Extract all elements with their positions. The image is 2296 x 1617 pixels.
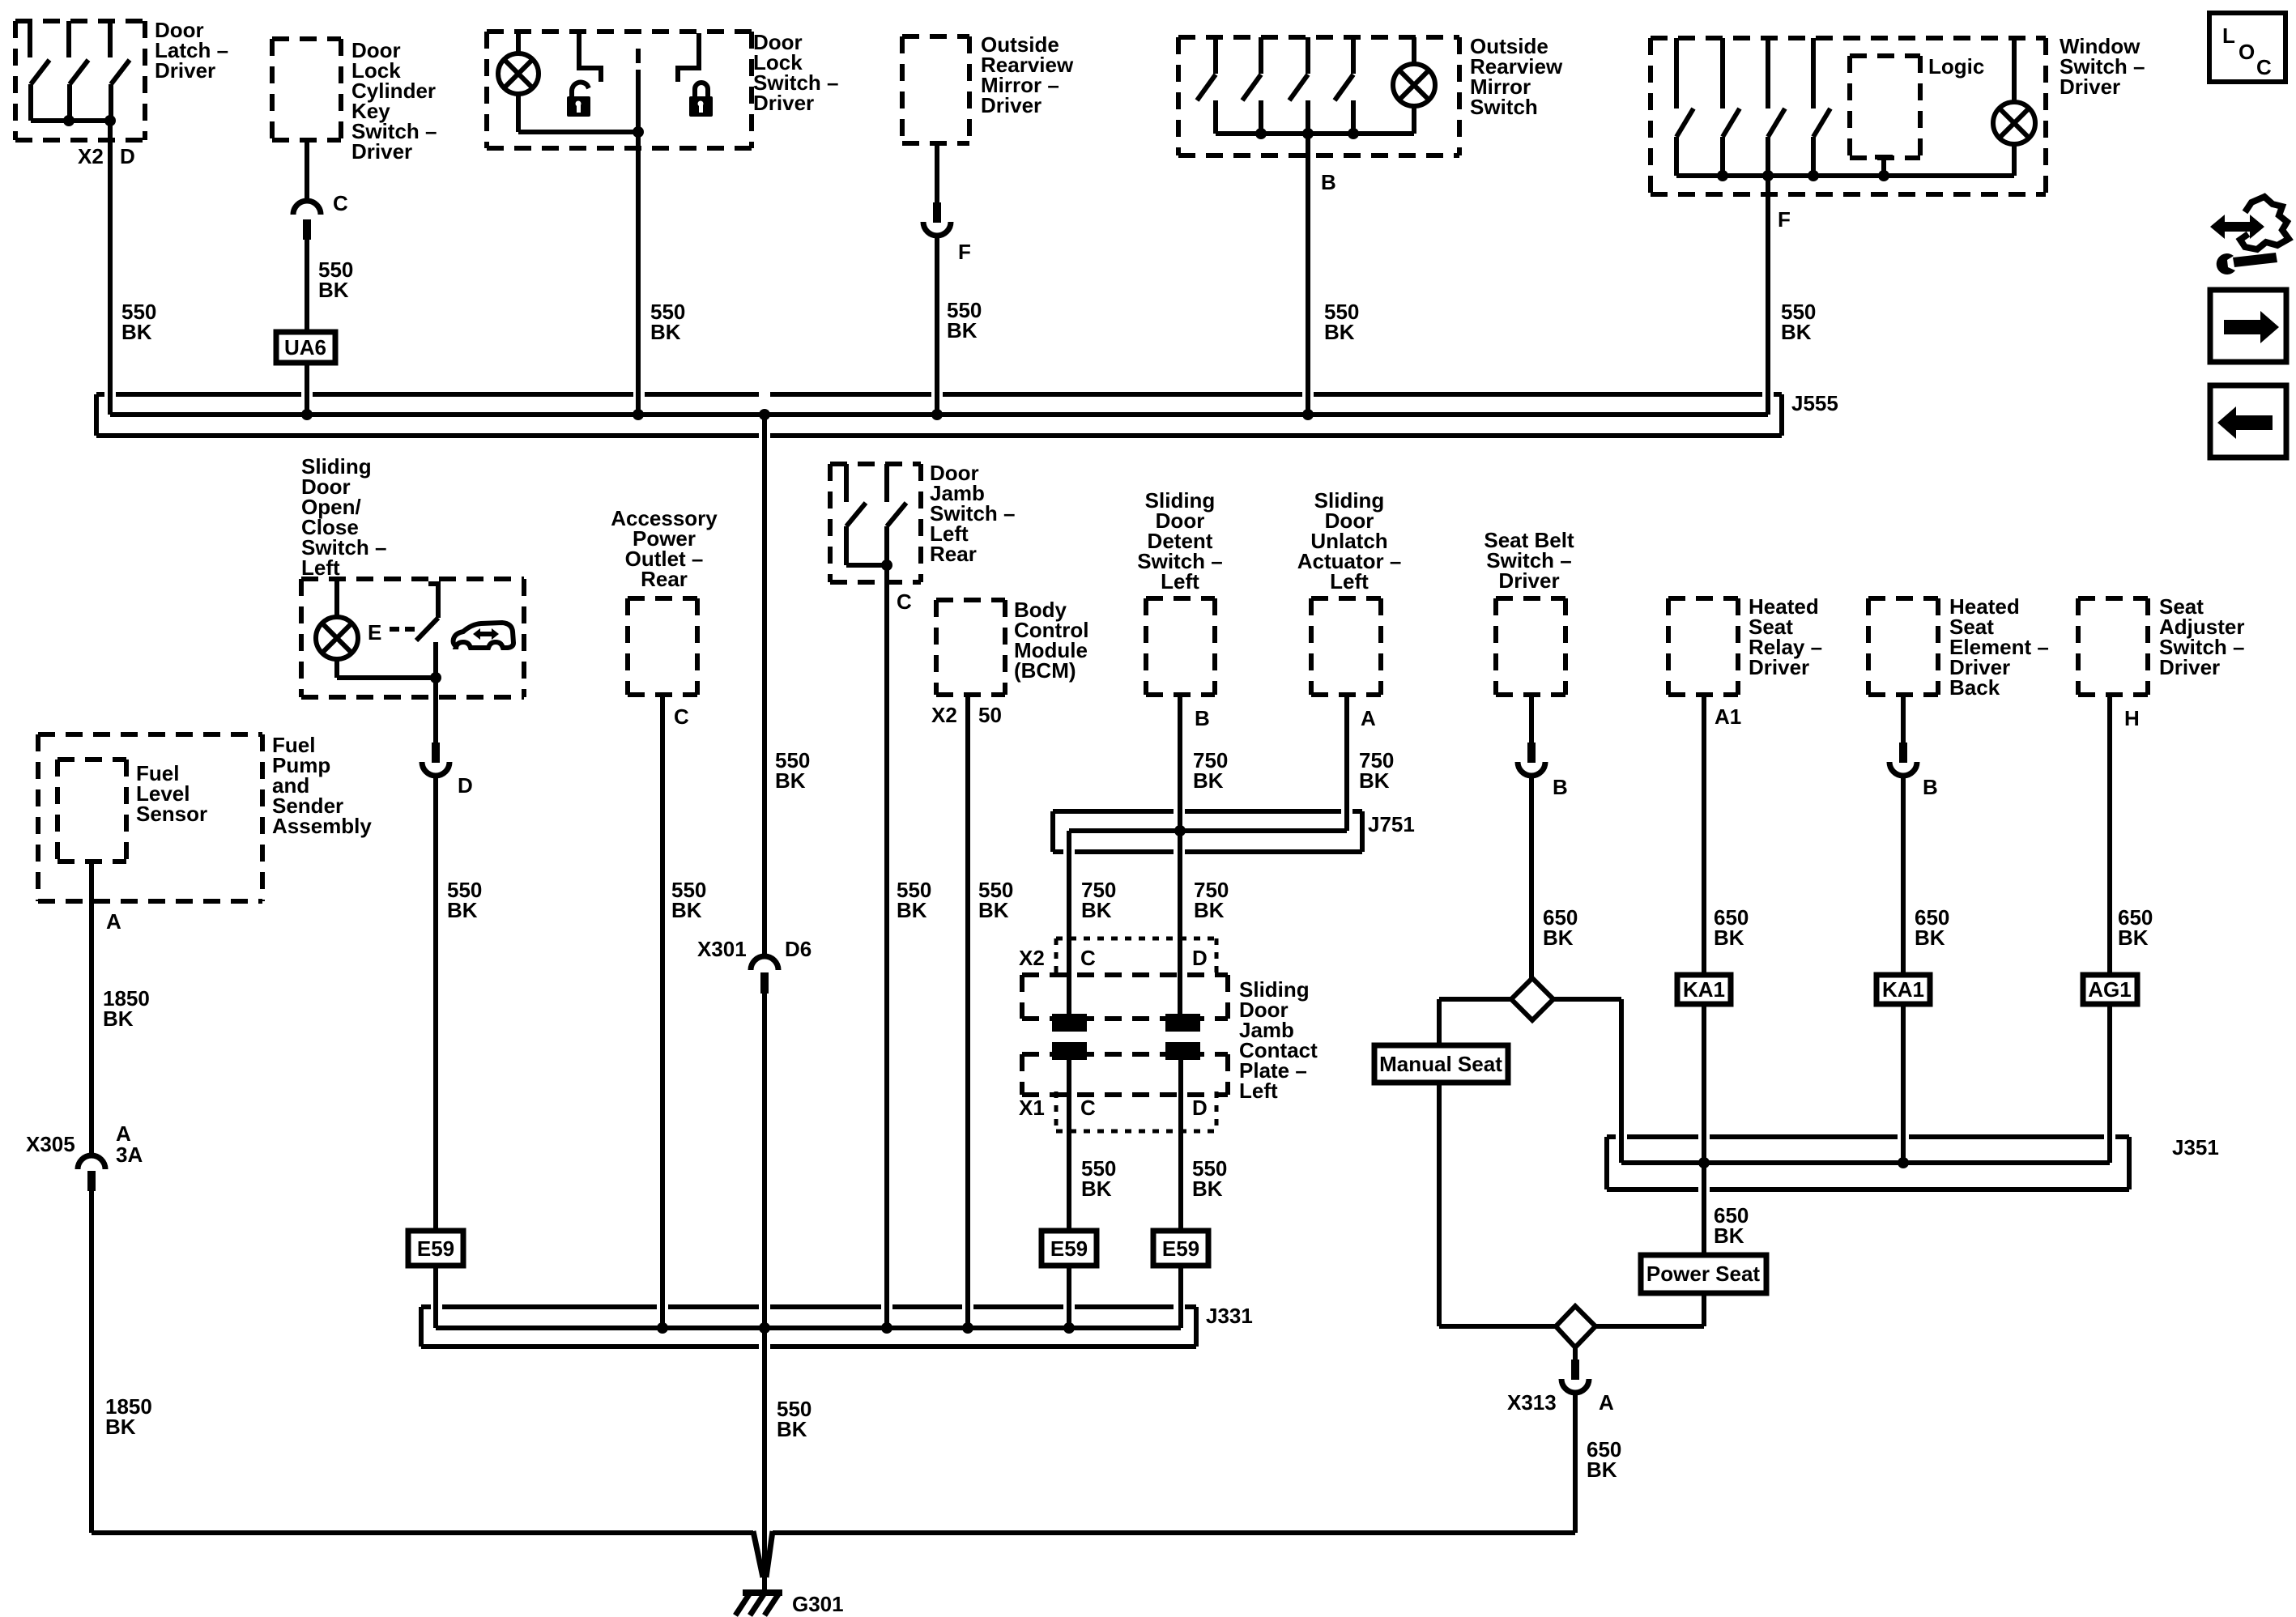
- wire: relay to KA1, 650 BK: [1702, 695, 1706, 975]
- svg-text:3A: 3A: [116, 1143, 143, 1167]
- component box: Sliding Door Unlatch Actuator - Left: [1311, 598, 1381, 695]
- svg-text:Driver: Driver: [1498, 568, 1559, 593]
- label: Fuel Pump and Sender Assembly: [272, 733, 372, 838]
- junction dot: [1255, 128, 1267, 139]
- junction dot: [1063, 1322, 1075, 1334]
- wire: open/close switch down to connector D: [433, 678, 438, 743]
- wire: J331 to ground, 550 BK: [762, 1328, 767, 1590]
- svg-text:BK: BK: [1915, 926, 1945, 950]
- svg-text:BK: BK: [1714, 926, 1744, 950]
- svg-text:C: C: [897, 589, 912, 614]
- ground G301 symbol: [735, 1592, 782, 1615]
- svg-text:UA6: UA6: [284, 335, 326, 360]
- wire: contact plate right lower, 550 BK: [1178, 1042, 1183, 1231]
- svg-text:J331: J331: [1206, 1304, 1253, 1328]
- component box: Sliding Door Detent Switch - Left: [1146, 598, 1215, 695]
- component box: Window Switch - Driver: [1651, 38, 2046, 194]
- svg-text:C: C: [1080, 946, 1096, 970]
- svg-text:E: E: [368, 620, 381, 645]
- junction dot: [633, 126, 644, 138]
- fuse block UA6: [276, 332, 335, 363]
- junction dot: [1808, 170, 1819, 181]
- svg-text:BK: BK: [103, 1006, 134, 1031]
- wire: E59 right to J331: [1178, 1266, 1183, 1328]
- wire: connector C to UA6: [305, 240, 309, 332]
- wire: connector F to J555, 550 BK: [935, 236, 939, 415]
- svg-text:C: C: [1080, 1096, 1096, 1120]
- svg-text:C: C: [333, 191, 348, 215]
- component box: Seat Adjuster Switch - Driver: [2078, 598, 2148, 695]
- contact plate upper half: [1022, 975, 1228, 1019]
- navigation arrow box left: [2210, 385, 2286, 457]
- junction dot: [430, 672, 441, 683]
- svg-text:BK: BK: [1359, 768, 1390, 793]
- label: Fuel Level Sensor: [136, 761, 207, 826]
- label: Sliding Door Detent Switch - Left: [1137, 488, 1222, 594]
- label: Heated Seat Element - Driver Back: [1949, 594, 2049, 700]
- junction dot: [1762, 170, 1774, 181]
- svg-text:BK: BK: [2118, 926, 2149, 950]
- component box: Fuel Pump and Sender Assembly: [38, 734, 262, 901]
- svg-text:BK: BK: [318, 278, 349, 302]
- junction dot: [1898, 1157, 1909, 1168]
- switch S1 mirror switch: [1197, 37, 1216, 134]
- contact pad upper left: [1052, 1014, 1087, 1032]
- svg-text:A1: A1: [1715, 704, 1741, 729]
- connector B (pin + cup): [1889, 743, 1917, 776]
- label: Body Control Module (BCM): [1014, 598, 1088, 683]
- svg-text:Power Seat: Power Seat: [1646, 1262, 1761, 1286]
- svg-text:Logic: Logic: [1928, 54, 1984, 79]
- svg-text:BK: BK: [947, 318, 978, 343]
- component box: Door Latch - Driver: [15, 21, 145, 140]
- component box: Door Jamb Switch - Left Rear: [830, 464, 921, 582]
- option diamond lower: [1556, 1306, 1595, 1347]
- label: Door Latch - Driver: [155, 18, 228, 83]
- svg-text:O: O: [2238, 40, 2255, 64]
- svg-text:B: B: [1195, 706, 1210, 730]
- wire: detent through J751 to contact plate, 750 BK: [1178, 831, 1182, 1017]
- svg-text:G301: G301: [792, 1592, 844, 1616]
- wire: jamb switch common: [846, 563, 887, 568]
- svg-text:BK: BK: [1081, 898, 1112, 922]
- wire: cylinder switch down to connector C: [305, 140, 309, 201]
- component box: Heated Seat Element - Driver Back: [1868, 598, 1938, 695]
- switch S2 window switch: [1723, 38, 1740, 176]
- svg-text:D: D: [1192, 946, 1208, 970]
- junction dot: [1878, 170, 1889, 181]
- wire: Power Seat to lower diamond: [1595, 1293, 1704, 1326]
- wire: door lock switch to J555, 550 BK: [636, 70, 641, 415]
- ground lead-in V: [753, 1531, 773, 1589]
- wire: E59 left to J331: [1067, 1266, 1071, 1328]
- wire: X301 to J331: [762, 994, 767, 1328]
- svg-text:Left: Left: [301, 555, 340, 580]
- wire: element to connector B: [1901, 695, 1906, 743]
- wire: J351 internal bus: [1621, 1160, 2110, 1165]
- svg-text:J751: J751: [1368, 812, 1415, 836]
- logic box inside window switch: [1850, 54, 1984, 158]
- connector F (pin + cup): [923, 202, 951, 236]
- lamp in open/close switch: [316, 579, 358, 678]
- svg-text:BK: BK: [897, 898, 927, 922]
- svg-text:Sensor: Sensor: [136, 802, 207, 826]
- contact plate X2 connector row: [1056, 938, 1216, 977]
- svg-text:Switch: Switch: [1470, 95, 1538, 119]
- svg-text:X301: X301: [697, 937, 747, 961]
- option diamond upper: [1511, 978, 1553, 1020]
- wire: adjuster to AG1, 650 BK: [2107, 695, 2112, 975]
- lamp in mirror switch: [1393, 37, 1435, 134]
- label: Accessory Power Outlet - Rear: [611, 506, 718, 591]
- lamp in window switch: [1993, 38, 2035, 176]
- svg-text:(BCM): (BCM): [1014, 658, 1076, 683]
- svg-text:C: C: [674, 704, 689, 729]
- ground bus J555: [96, 394, 1782, 436]
- junction dot: [1698, 1157, 1710, 1168]
- svg-text:X2: X2: [1019, 946, 1045, 970]
- contact pad lower left: [1052, 1042, 1087, 1060]
- svg-text:Left: Left: [1330, 569, 1369, 594]
- label: Heated Seat Relay - Driver: [1749, 594, 1822, 679]
- navigation arrow box right: [2210, 290, 2286, 362]
- svg-text:E59: E59: [1162, 1236, 1199, 1261]
- component box: Fuel Level Sensor: [58, 760, 126, 862]
- wire: J351 to Power Seat, 650 BK: [1702, 1163, 1706, 1255]
- junction dot: [931, 409, 943, 420]
- svg-text:BK: BK: [650, 320, 681, 344]
- wire: Manual Seat to lower diamond: [1439, 1083, 1556, 1326]
- svg-text:Driver: Driver: [981, 93, 1042, 117]
- svg-text:BK: BK: [105, 1415, 136, 1439]
- svg-text:BK: BK: [1193, 768, 1224, 793]
- svg-text:KA1: KA1: [1882, 977, 1924, 1002]
- fuse E59 right: [1153, 1231, 1208, 1266]
- label: Outside Rearview Mirror - Driver: [981, 32, 1074, 117]
- wire: logic stub: [1881, 158, 1886, 176]
- wire: J555 drop to X301, 550 BK: [762, 415, 767, 956]
- svg-text:J555: J555: [1791, 391, 1838, 415]
- wire: ground run left: [92, 1530, 753, 1535]
- svg-text:B: B: [1321, 170, 1336, 194]
- wire: diamond to Manual Seat: [1439, 999, 1511, 1045]
- component box: Outside Rearview Mirror - Driver: [902, 36, 969, 143]
- junction dot: [1302, 409, 1314, 420]
- wire: unlatch actuator to J751, 750 BK: [1344, 695, 1349, 831]
- wire: mirror switch internal common: [1216, 131, 1414, 136]
- wire: door latch to J555, 550 BK: [108, 121, 113, 415]
- svg-text:B: B: [1923, 775, 1938, 799]
- label: Door Jamb Switch - Left Rear: [930, 461, 1015, 566]
- svg-text:C: C: [2256, 55, 2272, 79]
- connector X305 (arc + pin): [78, 1155, 105, 1191]
- contact plate X1 connector row: [1056, 1091, 1216, 1131]
- junction dot: [1348, 128, 1359, 139]
- wire: window switch to J555, 550 BK: [1766, 176, 1770, 415]
- switch S3 window switch: [1768, 38, 1785, 176]
- wire: diamond to J351 power-seat branch: [1553, 999, 1621, 1163]
- junction dot: [633, 409, 644, 420]
- svg-text:BK: BK: [1192, 1177, 1223, 1201]
- RPO code KA1: [1876, 975, 1930, 1004]
- svg-text:Rear: Rear: [641, 567, 688, 591]
- wire: connector B to diamond, 650 BK: [1529, 776, 1534, 978]
- wire: lamp to switch common: [337, 675, 436, 680]
- RPO code KA1: [1677, 975, 1731, 1004]
- svg-text:KA1: KA1: [1683, 977, 1725, 1002]
- wire: mirror switch to J555, 550 BK: [1306, 134, 1310, 415]
- switch S1 door jamb: [846, 464, 866, 565]
- component box: Body Control Module (BCM): [936, 600, 1005, 695]
- switch S1 window switch: [1676, 38, 1693, 176]
- component box: Door Lock Switch - Driver: [487, 32, 752, 148]
- icon: sliding door car: [454, 623, 513, 648]
- svg-text:Driver: Driver: [351, 139, 412, 164]
- icon: body repair (arrow, outline, wrench): [2210, 197, 2289, 274]
- svg-text:BK: BK: [671, 898, 702, 922]
- junction dot: [881, 560, 892, 571]
- wire: J751 left leg to contact plate, 750 BK: [1067, 831, 1071, 1017]
- svg-text:X313: X313: [1507, 1390, 1557, 1415]
- svg-text:X2: X2: [78, 144, 104, 168]
- wire: diamond to connector X313: [1573, 1347, 1578, 1360]
- svg-text:BK: BK: [121, 320, 152, 344]
- wire: lamp to centre: [518, 130, 638, 134]
- svg-text:Driver: Driver: [155, 58, 215, 83]
- switch S1 in door latch: [30, 21, 49, 121]
- svg-text:Rear: Rear: [930, 542, 977, 566]
- wire: AG1 to J351: [2107, 1004, 2112, 1163]
- wire: ground run right: [773, 1530, 1575, 1535]
- wire: door latch internal common: [31, 118, 110, 123]
- switch symbol E with blade: [368, 584, 441, 678]
- junction dot: [1302, 128, 1314, 139]
- option box Manual Seat: [1374, 1045, 1508, 1083]
- lamp in door lock switch: [498, 32, 539, 132]
- svg-text:BK: BK: [775, 768, 806, 793]
- svg-text:X305: X305: [26, 1132, 75, 1156]
- svg-text:BK: BK: [1081, 1177, 1112, 1201]
- connector C (arc + pin): [293, 201, 321, 240]
- wire: J751 internal bus: [1069, 828, 1347, 833]
- svg-text:H: H: [2124, 706, 2140, 730]
- switch S4 window switch: [1813, 38, 1830, 176]
- label: Sliding Door Unlatch Actuator - Left: [1297, 488, 1402, 594]
- wire: fuel level sensor down: [89, 862, 94, 1155]
- connector D (pin + cup): [422, 743, 449, 776]
- component box: Sliding Door Open/Close Switch - Left: [301, 579, 524, 697]
- switch centre stub: [636, 49, 641, 63]
- svg-text:A: A: [1599, 1390, 1614, 1415]
- wire: door jamb switch to J331, 550 BK: [884, 565, 889, 1328]
- wire: X305 to ground run, 1850 BK: [89, 1191, 94, 1533]
- component box: Door Lock Cylinder Key Switch - Driver: [272, 39, 341, 140]
- ground bus J331: [421, 1307, 1196, 1347]
- label: Window Switch - Driver: [2060, 34, 2145, 99]
- svg-text:Driver: Driver: [2159, 655, 2220, 679]
- junction dot: [962, 1322, 973, 1334]
- svg-text:Left: Left: [1239, 1079, 1278, 1103]
- wire: detent switch to J751, 750 BK: [1178, 695, 1182, 831]
- switch S3 mirror switch: [1289, 37, 1308, 134]
- fuse E59 left: [1042, 1231, 1097, 1266]
- junction dot: [1174, 825, 1186, 836]
- label: Door Lock Cylinder Key Switch - Driver: [351, 38, 437, 164]
- splice bus J751: [1053, 811, 1362, 852]
- lock padlock icon: [689, 83, 713, 117]
- connector X301 (arc + pin): [751, 956, 778, 994]
- wire: window switch internal common: [1676, 173, 2014, 178]
- junction dot: [1717, 170, 1728, 181]
- svg-text:Driver: Driver: [753, 91, 814, 115]
- wire: KA1 to J351: [1702, 1004, 1706, 1163]
- contact plate lower half: [1022, 1054, 1228, 1095]
- svg-text:BK: BK: [978, 898, 1009, 922]
- svg-text:BK: BK: [1324, 320, 1355, 344]
- LOC legend box: [2209, 13, 2285, 82]
- junction dot: [63, 115, 75, 126]
- contact pad lower right: [1165, 1042, 1200, 1060]
- wire: contact plate left lower, 550 BK: [1067, 1042, 1071, 1231]
- svg-text:D: D: [1192, 1096, 1208, 1120]
- component box: Seat Belt Switch - Driver: [1496, 598, 1565, 695]
- label: Sliding Door Open/Close Switch - Left: [301, 454, 386, 580]
- component box: Heated Seat Relay - Driver: [1668, 598, 1738, 695]
- splice bus J351: [1607, 1137, 2129, 1189]
- svg-text:B: B: [1553, 775, 1568, 799]
- svg-text:Assembly: Assembly: [272, 814, 372, 838]
- svg-text:Left: Left: [1161, 569, 1199, 594]
- label: Door Lock Switch - Driver: [753, 30, 838, 115]
- svg-text:Manual Seat: Manual Seat: [1379, 1052, 1502, 1076]
- junction dot: [881, 1322, 892, 1334]
- svg-text:J351: J351: [2172, 1135, 2219, 1160]
- switch S2 in door latch: [69, 21, 88, 121]
- switch S2 door jamb: [887, 464, 906, 565]
- RPO code AG1: [2083, 975, 2137, 1004]
- svg-text:BK: BK: [1781, 320, 1812, 344]
- svg-text:BK: BK: [1194, 898, 1225, 922]
- connector B (pin + cup): [1518, 743, 1545, 776]
- unlock padlock icon: [567, 83, 590, 117]
- junction dot: [104, 115, 116, 126]
- junction dot: [759, 1322, 770, 1334]
- wire: UA6 to J555: [305, 363, 309, 415]
- switch S3 in door latch: [110, 21, 130, 121]
- svg-text:Driver: Driver: [1749, 655, 1809, 679]
- unlock contact bracket: [577, 33, 601, 82]
- svg-text:A: A: [106, 909, 121, 934]
- label: Outside Rearview Mirror Switch: [1470, 34, 1563, 119]
- svg-text:BK: BK: [1587, 1457, 1617, 1482]
- svg-text:X1: X1: [1019, 1096, 1045, 1120]
- junction dot: [301, 409, 313, 420]
- wire: J331 internal bus: [436, 1326, 1181, 1330]
- connector X313 (pin + cup): [1561, 1360, 1589, 1393]
- svg-text:AG1: AG1: [2088, 977, 2131, 1002]
- svg-text:X2: X2: [931, 703, 957, 727]
- switch S2 mirror switch: [1242, 37, 1261, 134]
- label: Seat Belt Switch - Driver: [1484, 528, 1574, 593]
- component box: Accessory Power Outlet - Rear: [628, 598, 697, 695]
- option box Power Seat: [1641, 1255, 1766, 1293]
- svg-text:BK: BK: [447, 898, 478, 922]
- svg-text:Driver: Driver: [2060, 74, 2120, 99]
- lock contact bracket: [678, 33, 701, 82]
- svg-text:A: A: [1361, 706, 1376, 730]
- wire: BCM to J331, 550 BK: [965, 695, 970, 1328]
- wire: connector B to KA1, 650 BK: [1901, 776, 1906, 975]
- svg-text:D: D: [120, 144, 135, 168]
- svg-text:F: F: [1778, 207, 1791, 232]
- wire: mirror driver to connector F: [935, 143, 939, 202]
- svg-text:E59: E59: [1050, 1236, 1088, 1261]
- wire: X313 to ground run, 650 BK: [1573, 1393, 1578, 1533]
- wire: accessory outlet to J331, 550 BK: [660, 695, 665, 1328]
- svg-text:50: 50: [978, 703, 1002, 727]
- wire: KA1 to J351: [1901, 1004, 1906, 1163]
- fuse E59: [408, 1231, 463, 1266]
- wire: E59 to J331: [433, 1266, 438, 1328]
- wire: connector D to E59, 550 BK: [433, 776, 438, 1231]
- svg-text:E59: E59: [417, 1236, 454, 1261]
- svg-text:Back: Back: [1949, 675, 2000, 700]
- svg-text:D: D: [458, 773, 473, 798]
- wire: seat belt switch to connector B: [1529, 695, 1534, 743]
- svg-text:L: L: [2222, 23, 2235, 48]
- label: Sliding Door Jamb Contact Plate - Left: [1239, 977, 1318, 1103]
- svg-text:BK: BK: [777, 1417, 807, 1441]
- label: Seat Adjuster Switch - Driver: [2159, 594, 2244, 679]
- contact pad upper right: [1165, 1014, 1200, 1032]
- wire: J555 internal bus: [110, 412, 1768, 417]
- svg-text:F: F: [958, 240, 971, 264]
- junction dot: [759, 409, 770, 420]
- switch S4 mirror switch: [1335, 37, 1353, 134]
- svg-text:BK: BK: [1714, 1223, 1744, 1248]
- component box: Outside Rearview Mirror Switch: [1178, 37, 1459, 155]
- junction dot: [657, 1322, 668, 1334]
- svg-text:D6: D6: [785, 937, 811, 961]
- svg-text:BK: BK: [1543, 926, 1574, 950]
